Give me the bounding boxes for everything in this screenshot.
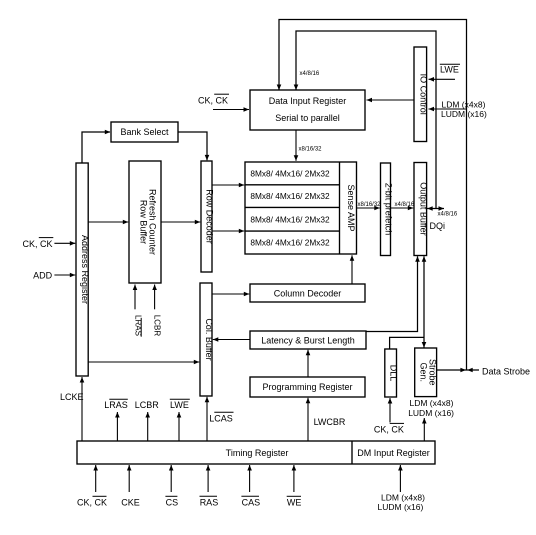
wire Output Buffer to Strobe Gen	[423, 256, 425, 347]
svg-text:Bank Select: Bank Select	[120, 127, 169, 137]
svg-text:Programming Register: Programming Register	[262, 382, 352, 392]
wire Address Register to Col Buffer	[88, 361, 199, 363]
wire IO Control to Data Input Register	[367, 99, 415, 101]
svg-text:LRAS: LRAS	[104, 400, 128, 410]
wire Data Input Register to memory banks	[295, 130, 297, 161]
svg-text:Serial to parallel: Serial to parallel	[275, 113, 340, 123]
wire Address Register to Refresh Counter	[88, 221, 128, 223]
wire Timing Register to Programming Register	[307, 398, 309, 441]
wire Column Decoder to Sense AMP	[351, 255, 353, 283]
wire Latency & Burst Length to Col Buffer	[213, 339, 250, 341]
svg-text:x8/16/32: x8/16/32	[358, 202, 382, 208]
wire Output Buffer to DQ (bidirectional)	[427, 208, 444, 210]
svg-text:Data Input Register: Data Input Register	[269, 96, 347, 106]
svg-text:Data Strobe: Data Strobe	[482, 366, 530, 376]
wire CK,CK to Data Input Register	[213, 109, 249, 111]
svg-text:x4/8/16: x4/8/16	[438, 212, 458, 218]
box IO Control	[414, 47, 427, 142]
wire Sense AMP to 2-bit prefetch	[357, 207, 380, 209]
wire LWE to IO Control	[429, 78, 456, 80]
svg-text:x4/8/16: x4/8/16	[300, 71, 320, 77]
svg-text:CKE: CKE	[121, 498, 140, 508]
svg-text:LUDM (x16): LUDM (x16)	[441, 109, 487, 119]
svg-text:8Mx8/ 4Mx16/ 2Mx32: 8Mx8/ 4Mx16/ 2Mx32	[250, 191, 330, 201]
svg-text:RAS: RAS	[200, 498, 219, 508]
svg-text:Row Decoder: Row Decoder	[205, 189, 215, 244]
svg-text:LCKE: LCKE	[60, 392, 84, 402]
svg-text:LWE: LWE	[170, 400, 189, 410]
svg-text:Sense AMP: Sense AMP	[346, 184, 356, 231]
svg-text:Column Decoder: Column Decoder	[274, 289, 342, 299]
svg-text:CK, CK: CK, CK	[374, 425, 404, 435]
svg-text:LWCBR: LWCBR	[314, 417, 346, 427]
svg-text:DLL: DLL	[389, 365, 399, 382]
wire Latency & Burst Length to Output Buffer	[366, 256, 418, 331]
svg-text:IO Control: IO Control	[418, 74, 428, 115]
svg-text:LDM (x4x8): LDM (x4x8)	[381, 492, 425, 502]
svg-text:CS: CS	[166, 498, 179, 508]
svg-text:LDM (x4x8): LDM (x4x8)	[442, 100, 486, 110]
svg-text:LCAS: LCAS	[209, 414, 233, 424]
svg-text:CAS: CAS	[242, 498, 261, 508]
wire Timing Register up to LRAS label	[116, 412, 118, 441]
wire Row Decoder to bank row 1	[212, 184, 244, 186]
svg-text:DM Input Register: DM Input Register	[357, 448, 430, 458]
wire Timing Register up to LWE label	[178, 412, 180, 441]
svg-text:LCBR: LCBR	[152, 315, 161, 337]
wire bottom input WE	[293, 465, 295, 492]
box Col Buffer	[200, 283, 212, 396]
svg-text:CK, CK: CK, CK	[77, 498, 107, 508]
wire Address Register to Bank Select	[82, 132, 110, 163]
box Strobe Gen	[415, 348, 437, 397]
wire CK,CK to Address Register	[54, 242, 75, 244]
box Timing Register / DM Input Register	[77, 441, 435, 464]
wire bottom input LDM/LUDM to DM Input Register	[399, 465, 401, 492]
svg-text:WE: WE	[287, 498, 302, 508]
wire Row Decoder to bank row 3	[212, 230, 244, 232]
box DLL	[385, 349, 397, 397]
svg-text:Address Register: Address Register	[80, 235, 90, 304]
box memory banks with Sense AMP	[245, 162, 357, 254]
box Column Decoder	[250, 284, 365, 302]
wire Refresh Counter to Row Decoder	[161, 221, 200, 223]
box Refresh Counter / Row Buffer	[129, 161, 161, 283]
svg-text:Gen.: Gen.	[419, 363, 429, 383]
wire bottom input CKE	[128, 465, 130, 492]
svg-text:8Mx8/ 4Mx16/ 2Mx32: 8Mx8/ 4Mx16/ 2Mx32	[250, 169, 330, 179]
wire Col Buffer to Column Decoder	[213, 293, 250, 295]
svg-text:x8/16/32: x8/16/32	[299, 147, 323, 153]
wire bottom input CS	[170, 465, 172, 492]
wire Strobe Gen to Data Strobe	[437, 369, 479, 371]
svg-text:x4/8/16: x4/8/16	[395, 202, 415, 208]
box Latency and Burst Length	[250, 331, 366, 349]
svg-text:Latency & Burst Length: Latency & Burst Length	[261, 336, 355, 346]
svg-text:CK, CK: CK, CK	[198, 96, 228, 106]
svg-text:2-bit prefetch: 2-bit prefetch	[384, 183, 394, 236]
box Bank Select	[111, 122, 178, 142]
wire Timing Register to Col Buffer (LCAS)	[206, 397, 208, 441]
box 2-bit prefetch	[381, 163, 391, 256]
wire bottom input CAS	[249, 465, 251, 492]
wire LCKE from Timing Register to Address Register	[81, 377, 83, 441]
wire LRAS into Refresh Counter	[134, 285, 136, 310]
wire LCBR into Refresh Counter	[154, 285, 156, 310]
svg-text:Timing Register: Timing Register	[226, 448, 289, 458]
svg-text:ADD: ADD	[33, 271, 53, 281]
wire inner top bus: DIR top to DQ junction	[296, 31, 436, 209]
wire bottom input CK,CK to Timing Register	[95, 465, 97, 492]
svg-text:LUDM (x16): LUDM (x16)	[378, 502, 424, 512]
wire bottom input RAS	[207, 465, 209, 492]
box Data Input Register	[250, 90, 365, 130]
svg-text:8Mx8/ 4Mx16/ 2Mx32: 8Mx8/ 4Mx16/ 2Mx32	[250, 238, 330, 248]
svg-text:LDM (x4x8): LDM (x4x8)	[410, 398, 454, 408]
svg-text:LUDM (x16): LUDM (x16)	[408, 408, 454, 418]
wire Programming Register to Latency & Burst Length	[307, 350, 309, 377]
wire branch to DLL	[390, 337, 424, 348]
box Row Decoder	[201, 161, 212, 272]
box Address Register	[76, 163, 88, 376]
wire Bank Select to Row Decoder	[178, 132, 207, 160]
svg-text:LWE: LWE	[440, 65, 459, 75]
svg-text:CK, CK: CK, CK	[23, 239, 53, 249]
box Output Buffer	[414, 163, 427, 256]
svg-text:Row Buffer: Row Buffer	[139, 200, 149, 244]
wire Timing Register up to LCBR label	[147, 412, 149, 441]
svg-text:LCBR: LCBR	[135, 400, 160, 410]
svg-text:Col. Buffer: Col. Buffer	[204, 318, 214, 360]
svg-text:DQi: DQi	[430, 221, 446, 231]
wire ADD to Address Register	[54, 274, 75, 276]
box Programming Register	[250, 377, 365, 397]
svg-text:8Mx8/ 4Mx16/ 2Mx32: 8Mx8/ 4Mx16/ 2Mx32	[250, 215, 330, 225]
wire CK,CK to DLL	[389, 398, 391, 422]
wire outer top bus: DIR top to right-side vertical bus	[279, 20, 467, 371]
wire DM Input Register to Strobe Gen labels	[423, 418, 425, 441]
wire 2-bit prefetch to Output Buffer	[391, 207, 414, 209]
svg-text:Output Buffer: Output Buffer	[418, 182, 428, 235]
wire LDM/LUDM from right bus to IO Control	[429, 108, 467, 110]
